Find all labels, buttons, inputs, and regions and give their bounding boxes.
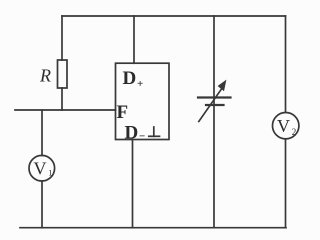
wire right branch lower xyxy=(285,139,287,228)
svg-text:V: V xyxy=(277,116,290,136)
wire capacitor branch vertical xyxy=(213,16,215,228)
svg-text:F: F xyxy=(117,102,129,123)
svg-text:R: R xyxy=(39,66,51,86)
svg-text:V: V xyxy=(34,159,47,179)
probe unit F (box) xyxy=(116,63,170,143)
meter V1 xyxy=(29,155,55,181)
svg-text:2: 2 xyxy=(292,127,297,137)
wire bottom horizontal xyxy=(20,227,286,229)
resistor R xyxy=(39,60,67,88)
wire V1 branch lower xyxy=(41,181,43,228)
wire resistor branch lower xyxy=(61,88,63,110)
ground symbol inside box xyxy=(149,127,160,136)
svg-text:−: − xyxy=(139,131,145,143)
svg-text:D: D xyxy=(125,123,139,144)
meter V2 xyxy=(273,113,299,139)
svg-text:+: + xyxy=(137,78,143,90)
pin label D- xyxy=(125,123,146,144)
variable capacitor xyxy=(198,80,231,122)
wire box top lead xyxy=(133,16,135,63)
wire resistor branch upper xyxy=(61,16,63,60)
pin label D+ xyxy=(123,68,144,90)
wire middle-left horizontal (input to F) xyxy=(15,109,116,111)
wire top horizontal xyxy=(62,15,286,17)
wire box bottom lead xyxy=(132,140,134,228)
wire right branch upper xyxy=(285,16,287,112)
svg-text:1: 1 xyxy=(48,168,52,178)
wire V1 branch upper xyxy=(41,110,43,156)
svg-text:D: D xyxy=(123,68,137,89)
